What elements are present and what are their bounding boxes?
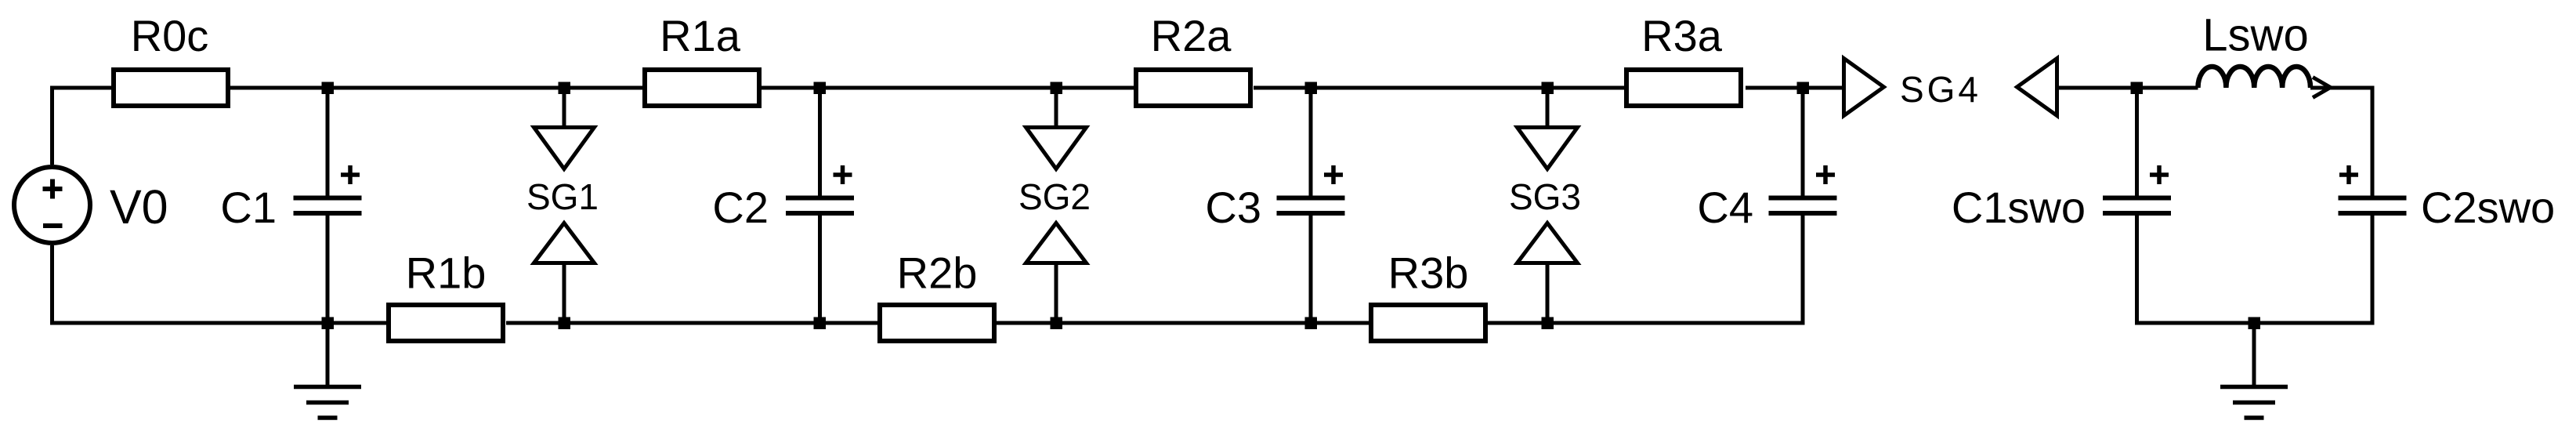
SG4 triangle right bbox=[1844, 59, 1884, 116]
bottom loop of right circuit bbox=[2137, 213, 2373, 323]
capacitor C2 bbox=[818, 88, 822, 198]
resistor R2b bbox=[880, 305, 994, 341]
wire bottom rail R3b to C4 corner bbox=[1488, 213, 1803, 323]
ground at C1 bbox=[326, 323, 330, 386]
inductor Lswo bbox=[2198, 67, 2310, 88]
svg-text:R3b: R3b bbox=[1388, 248, 1469, 298]
capacitor C1swo bbox=[2135, 88, 2139, 198]
node dot ground right bbox=[2249, 317, 2261, 330]
wire top-left corner from V0 to R0c bbox=[52, 88, 112, 165]
svg-text:SG4: SG4 bbox=[1900, 69, 1981, 110]
svg-text:C4: C4 bbox=[1697, 183, 1753, 232]
wire top rail R2a to R3a bbox=[1254, 86, 1624, 90]
svg-text:C3: C3 bbox=[1205, 183, 1261, 232]
capacitor C1 bbox=[326, 88, 330, 198]
resistor R3b bbox=[1371, 305, 1485, 341]
node dot C3 top bbox=[1305, 82, 1318, 95]
node dot SG1 bottom bbox=[559, 317, 571, 330]
wire top rail R3a to SG4 bbox=[1746, 86, 1842, 90]
wire V0 bottom to rail bbox=[50, 245, 54, 323]
wire bottom rail R1b to R2b bbox=[506, 321, 877, 325]
svg-text:R2b: R2b bbox=[897, 248, 978, 298]
svg-text:Lswo: Lswo bbox=[2202, 10, 2308, 61]
svg-text:C1swo: C1swo bbox=[1952, 183, 2086, 232]
svg-text:SG2: SG2 bbox=[1018, 176, 1091, 217]
wire top rail R0c to R1a bbox=[230, 86, 642, 90]
capacitor C3 bbox=[1309, 88, 1313, 198]
wire bottom rail left to R1b bbox=[52, 321, 387, 324]
resistor R0c bbox=[114, 70, 228, 106]
resistor R3a bbox=[1626, 70, 1741, 106]
capacitor C4 bbox=[1801, 88, 1805, 198]
node dot SG2 top bbox=[1051, 82, 1063, 95]
svg-text:V0: V0 bbox=[110, 180, 168, 234]
svg-text:C2: C2 bbox=[712, 183, 769, 232]
svg-text:R0c: R0c bbox=[131, 11, 209, 60]
wire left triangle to right circuit bbox=[2059, 86, 2198, 90]
SG3 source pair bbox=[1546, 88, 1550, 125]
wire top rail R1a to R2a bbox=[762, 86, 1134, 90]
node dot C1 bottom bbox=[322, 317, 335, 330]
resistor R2a bbox=[1136, 70, 1250, 106]
svg-text:R3a: R3a bbox=[1641, 11, 1723, 60]
inductor arrow bbox=[2313, 78, 2331, 98]
svg-text:C2swo: C2swo bbox=[2421, 183, 2555, 232]
node dot SG3 top bbox=[1542, 82, 1554, 95]
SG2 source pair bbox=[1055, 88, 1058, 125]
node dot SG1 top bbox=[559, 82, 571, 95]
svg-text:SG1: SG1 bbox=[526, 176, 599, 217]
node dot SG3 bottom bbox=[1542, 317, 1554, 330]
node dot C2 bottom bbox=[814, 317, 827, 330]
svg-text:R1a: R1a bbox=[660, 11, 741, 60]
node dot C1swo top bbox=[2131, 82, 2144, 95]
resistor R1a bbox=[645, 70, 759, 106]
svg-text:R1b: R1b bbox=[406, 248, 487, 298]
svg-text:R2a: R2a bbox=[1151, 11, 1232, 60]
node dot C2 top bbox=[814, 82, 827, 95]
SG1 source pair bbox=[563, 88, 566, 125]
capacitor C2swo bbox=[2339, 198, 2407, 214]
resistor R1b bbox=[389, 305, 503, 341]
svg-text:SG3: SG3 bbox=[1509, 176, 1581, 217]
ground at right circuit bbox=[2252, 323, 2256, 386]
svg-text:C1: C1 bbox=[220, 183, 277, 232]
voltage source V0 bbox=[14, 167, 90, 243]
SG4 triangle left bbox=[2017, 59, 2057, 116]
wire bottom rail R2b to R3b bbox=[997, 321, 1369, 325]
node dot C4 top bbox=[1797, 82, 1810, 95]
node dot SG2 bottom bbox=[1051, 317, 1063, 330]
node dot C3 bottom bbox=[1305, 317, 1318, 330]
node dot C1 top bbox=[322, 82, 335, 95]
wire arrow to top-right corner and down bbox=[2310, 88, 2372, 198]
